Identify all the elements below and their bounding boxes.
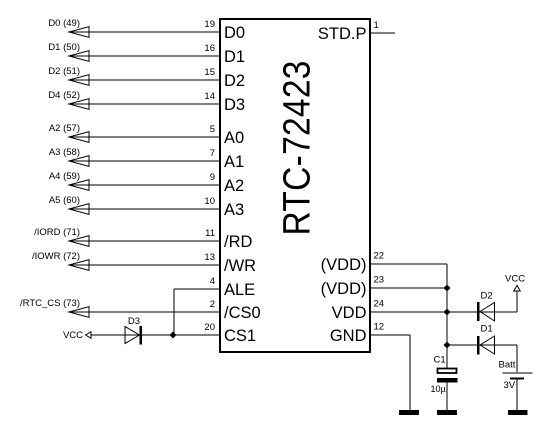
battery BT1 positive plate — [503, 372, 533, 374]
svg-text:D1 (50): D1 (50) — [48, 42, 80, 53]
svg-text:23: 23 — [374, 275, 385, 286]
wire pin22 to VDD rail — [371, 263, 447, 265]
svg-text:RTC-72423: RTC-72423 — [276, 60, 318, 235]
VCC power symbol (right) arrow — [514, 286, 521, 292]
diode D2 cathode bar — [477, 302, 480, 321]
svg-text:A4 (59): A4 (59) — [49, 171, 80, 182]
VCC power symbol (left) arrow — [86, 332, 92, 339]
svg-text:VDD: VDD — [332, 304, 367, 322]
svg-text:CS1: CS1 — [224, 327, 256, 345]
svg-text:D4 (52): D4 (52) — [48, 90, 80, 101]
arrowhead net A4 (59) — [69, 180, 89, 191]
wire pin24 VDD to D2 — [371, 311, 517, 313]
arrowhead net A3 (58) — [69, 156, 89, 167]
wire net D1 (50) to pin 16 — [69, 55, 219, 57]
capacitor C1 top plate — [438, 369, 457, 374]
svg-text:7: 7 — [210, 148, 215, 159]
svg-text:1: 1 — [374, 20, 379, 31]
svg-text:14: 14 — [204, 91, 215, 102]
wire net A2 (57) to pin 5 — [69, 136, 219, 138]
arrowhead net D0 (49) — [69, 27, 89, 38]
ground symbol at C1 — [437, 410, 457, 415]
wire CS1 net (VCC through D3 to pin 20) — [91, 334, 219, 336]
wire D1 row from VDD rail — [447, 344, 517, 346]
diode D1 cathode bar — [477, 336, 480, 355]
arrowhead net D1 (50) — [69, 51, 89, 62]
wire STD.P stub — [371, 32, 395, 34]
svg-text:5: 5 — [210, 124, 215, 135]
wire battery to ground — [516, 380, 518, 411]
svg-text:D3: D3 — [128, 316, 140, 327]
svg-text:2: 2 — [210, 299, 215, 310]
wire net D0 (49) to pin 19 — [69, 31, 219, 33]
wire net /IORD (71) to pin 11 — [69, 240, 219, 242]
wire net D2 (51) to pin 15 — [69, 79, 219, 81]
arrowhead net /IOWR (72) — [69, 260, 89, 271]
junction VDD rail / pin23 — [444, 285, 451, 292]
svg-text:15: 15 — [204, 67, 215, 78]
wire ALE pin4 stub — [174, 288, 219, 290]
svg-text:A0: A0 — [224, 129, 244, 147]
svg-text:D0: D0 — [224, 24, 245, 42]
svg-text:GND: GND — [330, 327, 367, 345]
wire pin23 to VDD rail — [371, 287, 447, 289]
junction ALE / CS1 — [170, 332, 177, 339]
svg-text:4: 4 — [210, 276, 215, 287]
svg-text:C1: C1 — [434, 355, 446, 366]
svg-text:10: 10 — [204, 196, 215, 207]
svg-text:ALE: ALE — [224, 281, 255, 299]
svg-text:D2 (51): D2 (51) — [48, 66, 80, 77]
svg-text:A3: A3 — [224, 201, 244, 219]
svg-text:22: 22 — [374, 251, 385, 262]
svg-text:10µ: 10µ — [431, 384, 446, 394]
wire ALE to CS1 vertical — [173, 289, 175, 335]
wire net D4 (52) to pin 14 — [69, 103, 219, 105]
diode D1 triangle — [480, 336, 495, 354]
svg-text:A1: A1 — [224, 153, 244, 171]
svg-text:/IOWR (72): /IOWR (72) — [32, 251, 80, 262]
diode D2 triangle — [480, 303, 495, 322]
capacitor C1 bottom plate — [437, 378, 458, 383]
svg-text:/WR: /WR — [224, 257, 256, 275]
svg-text:D3: D3 — [224, 96, 245, 114]
svg-text:/RD: /RD — [224, 233, 253, 251]
wire net A4 (59) to pin 9 — [69, 184, 219, 186]
svg-text:A2 (57): A2 (57) — [49, 123, 80, 134]
svg-text:A3 (58): A3 (58) — [49, 147, 80, 158]
junction VDD rail / pin24 — [444, 309, 451, 316]
svg-text:20: 20 — [204, 322, 215, 333]
ground symbol at battery — [508, 410, 528, 415]
svg-text:VCC: VCC — [505, 274, 525, 285]
svg-text:19: 19 — [204, 19, 215, 30]
arrowhead net /IORD (71) — [69, 236, 89, 247]
svg-text:/RTC_CS (73): /RTC_CS (73) — [20, 298, 80, 309]
wire D1 to battery — [516, 345, 518, 372]
arrowhead net D4 (52) — [69, 99, 89, 110]
svg-text:A5 (60): A5 (60) — [49, 195, 80, 206]
svg-text:16: 16 — [204, 43, 215, 54]
wire C1 to ground — [446, 383, 448, 411]
diode D3 triangle — [125, 327, 140, 344]
svg-text:D1: D1 — [224, 48, 245, 66]
svg-text:/CS0: /CS0 — [224, 304, 261, 322]
wire net A3 (58) to pin 7 — [69, 160, 219, 162]
svg-text:D2: D2 — [481, 291, 493, 302]
svg-text:/IORD (71): /IORD (71) — [34, 227, 80, 238]
svg-text:12: 12 — [374, 322, 385, 333]
ground symbol at pin12 — [399, 410, 419, 415]
svg-text:A2: A2 — [224, 177, 244, 195]
junction VDD rail / D1 row — [444, 342, 451, 349]
IC U1 RTC-72423 body — [220, 19, 370, 352]
diode D3 cathode bar — [140, 326, 143, 345]
svg-text:(VDD): (VDD) — [321, 256, 367, 274]
wire net A5 (60) to pin 10 — [69, 208, 219, 210]
wire net /RTC_CS (73) to pin 2 — [69, 311, 219, 313]
arrowhead net A5 (60) — [69, 204, 89, 215]
wire GND pin12 — [371, 335, 410, 410]
wire VDD rail vertical — [446, 264, 448, 368]
svg-text:D2: D2 — [224, 72, 245, 90]
svg-text:D1: D1 — [481, 324, 493, 335]
arrowhead net A2 (57) — [69, 132, 89, 143]
svg-text:D0 (49): D0 (49) — [48, 18, 80, 29]
svg-text:Batt: Batt — [499, 360, 516, 371]
svg-text:STD.P: STD.P — [318, 25, 367, 43]
svg-text:13: 13 — [204, 252, 215, 263]
arrowhead net /RTC_CS (73) — [69, 307, 89, 318]
svg-text:24: 24 — [374, 299, 385, 310]
wire D2 to VCC — [516, 291, 518, 312]
svg-text:3V: 3V — [504, 380, 516, 391]
svg-text:(VDD): (VDD) — [321, 280, 367, 298]
svg-text:11: 11 — [205, 228, 215, 239]
arrowhead net D2 (51) — [69, 75, 89, 86]
battery BT1 negative plate — [510, 378, 524, 380]
wire net /IOWR (72) to pin 13 — [69, 264, 219, 266]
svg-text:VCC: VCC — [63, 330, 83, 341]
svg-text:9: 9 — [210, 172, 215, 183]
